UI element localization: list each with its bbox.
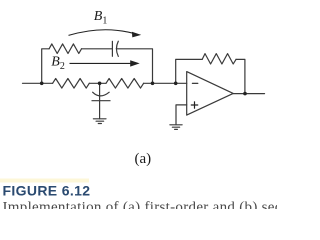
- node A input junction: [40, 82, 44, 86]
- arrow B2 straight: [70, 60, 140, 66]
- ground GND1 shunt capacitor: [93, 119, 106, 124]
- arrow B1 curved: [69, 30, 142, 38]
- resistor R4 feedback: [202, 54, 236, 64]
- wire top branch left vertical: [42, 49, 49, 84]
- capacitor C1 top branch: [112, 41, 118, 56]
- wire input left: [23, 82, 53, 84]
- wire output: [233, 93, 264, 95]
- op-amp plus input sign: [191, 102, 197, 108]
- op-amp minus input sign: [192, 82, 197, 84]
- node D inverting input junction: [174, 82, 178, 86]
- node E output junction: [243, 92, 247, 96]
- resistor R2 middle-left: [53, 79, 90, 89]
- wire top to capacitor: [82, 48, 113, 50]
- svg-text:(a): (a): [135, 151, 152, 167]
- wire middle between resistors: [89, 82, 106, 84]
- op-amp U1: [187, 72, 234, 116]
- ground GND2 op-amp: [170, 125, 182, 130]
- wire middle to op-amp: [144, 82, 187, 84]
- resistor R3 middle-right: [106, 79, 144, 89]
- wire feedback left vertical: [176, 59, 203, 83]
- wire noninverting input: [176, 105, 187, 125]
- svg-text:FIGURE 6.12: FIGURE 6.12: [3, 183, 91, 199]
- wire feedback right vertical: [236, 59, 245, 93]
- resistor R1 top branch: [49, 44, 81, 54]
- node C top-branch junction: [151, 82, 155, 86]
- svg-text:B2: B2: [51, 55, 65, 72]
- node B shunt junction: [98, 82, 102, 86]
- caption rule highlight: [0, 179, 89, 183]
- svg-text:Implementation of (a) first-or: Implementation of (a) first-order and (b…: [3, 199, 278, 209]
- wire capacitor to right corner: [116, 49, 152, 84]
- capacitor C2 shunt: [92, 83, 110, 119]
- svg-text:B1: B1: [94, 9, 108, 26]
